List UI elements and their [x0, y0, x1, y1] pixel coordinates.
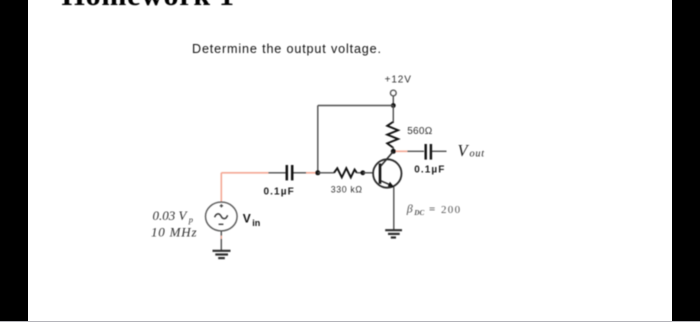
caption text	[192, 42, 382, 56]
svg-text:0.1µF: 0.1µF	[264, 186, 295, 197]
wire collector node salmon segment	[396, 150, 408, 152]
junction base dot	[360, 170, 365, 175]
wire terminal to top node	[392, 96, 394, 104]
wire base node to resistor 330k	[318, 172, 334, 174]
resistor 560 ohm	[387, 122, 398, 148]
ground source	[213, 251, 231, 258]
wire salmon horizontal from source	[221, 172, 268, 174]
wire top horizontal	[318, 105, 394, 107]
wire resistor to collector node	[392, 147, 394, 151]
AC source minus	[219, 223, 224, 225]
svg-text:560Ω: 560Ω	[407, 126, 433, 137]
AC source sine	[215, 214, 228, 219]
wire resistor to base junction	[357, 172, 362, 174]
transistor collector stroke	[381, 152, 394, 167]
svg-text:p: p	[188, 214, 193, 224]
capacitor input 0.1uF plates	[286, 165, 289, 180]
transistor emitter arrow	[388, 182, 394, 187]
junction collector node	[391, 149, 396, 154]
AC source circle	[206, 202, 238, 231]
wire emitter down	[393, 187, 395, 230]
svg-text:V: V	[243, 212, 251, 226]
svg-text:out: out	[470, 149, 486, 160]
wire source to ground	[220, 231, 222, 250]
svg-text:10 MHz: 10 MHz	[151, 225, 197, 240]
ground emitter	[385, 230, 402, 237]
svg-text:V: V	[458, 141, 470, 160]
wire salmon cap to base node	[306, 172, 316, 174]
transistor base bar	[379, 164, 382, 184]
junction base input node	[315, 170, 320, 175]
wire base dot to transistor	[363, 172, 379, 174]
title 'Homework 1' cropped at top	[62, 0, 235, 13]
svg-text:0.1µF: 0.1µF	[414, 164, 445, 175]
transistor emitter stroke	[381, 181, 391, 185]
wire node to resistor	[392, 106, 394, 124]
svg-text:200: 200	[441, 204, 461, 216]
right black border bar	[672, 0, 700, 321]
AC source plus	[220, 204, 223, 207]
left black border bar	[0, 0, 28, 321]
capacitor output 0.1uF plates	[425, 144, 427, 160]
svg-text:=: =	[429, 204, 436, 216]
transistor Q1 circle	[373, 159, 401, 187]
wire salmon vertical to source	[220, 173, 222, 202]
svg-text:in: in	[252, 218, 260, 228]
wire left vertical to base node	[317, 106, 319, 173]
svg-text:0.03 V: 0.03 V	[153, 208, 189, 223]
supply terminal circle	[390, 90, 396, 96]
wire to output capacitor	[408, 150, 425, 152]
wire capacitor to Vout	[432, 150, 447, 152]
svg-text:+12V: +12V	[385, 74, 412, 85]
wire input cap left black	[269, 172, 286, 174]
resistor 330k	[334, 168, 357, 177]
junction top node	[391, 103, 396, 108]
wire input cap right	[293, 172, 306, 174]
svg-text:330 kΩ: 330 kΩ	[331, 185, 363, 195]
wire salmon tint segment	[220, 236, 222, 240]
svg-text:β: β	[406, 202, 413, 216]
svg-text:DC: DC	[413, 209, 424, 217]
bottom page edge line	[0, 321, 700, 323]
